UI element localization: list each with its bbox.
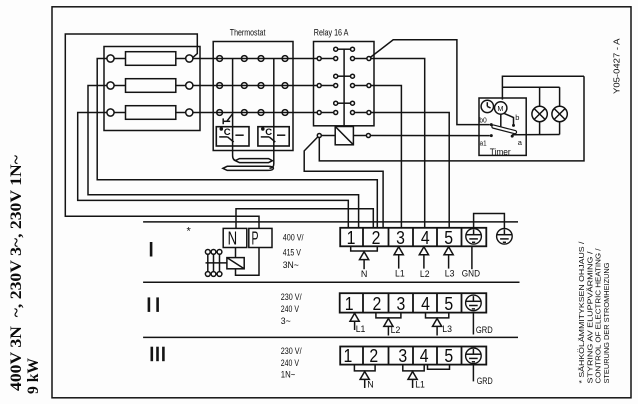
wire: relay row1 to timer contact b0	[371, 40, 490, 125]
arrow L1 strip III	[408, 372, 417, 380]
svg-text:*: *	[187, 226, 192, 238]
pin connector 3x2	[205, 250, 210, 255]
svg-text:GRD: GRD	[476, 325, 493, 336]
relay bridge row 1	[334, 47, 338, 51]
wire: K2 coil to P terminal	[236, 248, 260, 276]
svg-text:N: N	[228, 228, 238, 249]
voltage text section II	[281, 292, 302, 327]
C labels in sensors	[224, 127, 272, 138]
svg-text:2: 2	[372, 228, 381, 248]
heater box	[104, 47, 200, 131]
svg-text:a: a	[518, 138, 523, 147]
svg-text:b0: b0	[479, 116, 487, 125]
svg-text:3: 3	[398, 346, 407, 366]
svg-text:5: 5	[444, 294, 453, 314]
bracket under terminals 1-2 strip III	[354, 365, 375, 371]
svg-text:1: 1	[345, 294, 354, 314]
earth screw strip II	[466, 295, 482, 311]
wire: motor to contact b	[504, 113, 514, 124]
svg-text:P: P	[252, 228, 259, 249]
svg-text:415 V: 415 V	[283, 248, 302, 259]
wire: element2 internal leads	[114, 85, 125, 87]
link clock-motor	[494, 106, 495, 108]
svg-text:Relay 16 A: Relay 16 A	[314, 28, 349, 39]
relay row2 link segments	[321, 85, 333, 87]
svg-text:STEURUNG DER STROMHEIZUNG: STEURUNG DER STROMHEIZUNG	[602, 262, 611, 383]
bracket under terminals 2-3 strip II	[376, 313, 401, 318]
resistor R3 (heating element 3)	[126, 106, 176, 120]
earth screw strip I	[466, 229, 482, 245]
svg-text:GRD: GRD	[477, 376, 493, 387]
svg-text:L3: L3	[445, 268, 455, 279]
roman numeral II	[148, 297, 151, 312]
wire: element3 left to terminal 1 of strip I	[78, 113, 349, 228]
svg-text:L1: L1	[356, 324, 366, 335]
voltage text section III	[281, 346, 302, 381]
thermostat box	[213, 42, 293, 151]
connector N terminal box	[223, 228, 247, 247]
GRD stub strip III	[472, 365, 474, 382]
svg-text:2: 2	[373, 294, 382, 314]
N P connector labels	[228, 228, 259, 249]
svg-text:3N~: 3N~	[283, 260, 300, 271]
lamp H2	[552, 106, 567, 121]
relay coil terminals	[317, 134, 321, 138]
arrow L2 strip I	[419, 247, 428, 255]
svg-text:C: C	[224, 127, 231, 138]
bracket under terminals 3-4 strip III	[403, 365, 424, 371]
relay contact circles row 3	[317, 111, 321, 115]
wire: element3 internal leads	[114, 112, 125, 114]
svg-text:240 V: 240 V	[281, 358, 300, 369]
svg-text:b: b	[515, 113, 519, 122]
arrow L1 strip II	[350, 313, 359, 321]
svg-text:L2: L2	[420, 269, 430, 280]
wire: lamp L2 stub top	[559, 87, 561, 106]
bracket N under terminals 1-2	[351, 246, 378, 251]
relay bridge row 3	[334, 101, 338, 105]
GRD stub strip II	[472, 313, 474, 335]
terminal numbers strip III	[344, 346, 454, 366]
svg-text:Timer: Timer	[490, 147, 511, 158]
timer wiper bar	[492, 125, 517, 134]
arrow L1 strip I	[394, 247, 403, 255]
wire: element1 internal leads	[114, 58, 125, 60]
wire: lamp/motor feed bus	[502, 76, 584, 99]
arrow N strip III	[360, 372, 369, 380]
svg-text:1: 1	[344, 346, 353, 366]
svg-text:C: C	[265, 127, 272, 138]
arrow L3 strip I	[444, 247, 453, 255]
wire: relay row1 right to terminal 4 (L2)	[371, 59, 425, 228]
svg-text:L3: L3	[442, 324, 452, 335]
load-shed relay coil K2	[235, 248, 237, 258]
wire: relay coil right to timer contact a1	[371, 135, 490, 137]
sensor probe 1	[235, 159, 272, 163]
svg-text:3: 3	[396, 228, 405, 248]
svg-text:9 kW: 9 kW	[25, 358, 42, 394]
timer contact b	[512, 124, 515, 127]
svg-text:230 V/: 230 V/	[281, 292, 302, 303]
wire: lamp top bus	[502, 86, 559, 88]
relay bridge row 2	[334, 74, 338, 78]
svg-text:1N~: 1N~	[281, 370, 296, 381]
section divider III	[143, 336, 518, 338]
wire: relay coil left to lamp return bus	[319, 76, 584, 161]
svg-text:N: N	[367, 380, 374, 391]
svg-text:Y05-0427 - A: Y05-0427 - A	[612, 38, 622, 94]
connector P terminal box	[249, 228, 272, 247]
wire: row3 heater right to thermostat and relay	[193, 112, 317, 114]
wire: relay row3 right to terminal 5 (L3)	[371, 113, 449, 228]
relay row3 link segments	[321, 112, 333, 114]
relay K1 box	[314, 42, 375, 126]
svg-text:4: 4	[421, 228, 430, 248]
wire: row1 heater right to thermostat and relay	[193, 58, 317, 60]
section divider I	[143, 221, 518, 223]
right rotated footnote block	[577, 240, 611, 383]
terminal numbers strip I	[347, 228, 454, 248]
relay coil box	[335, 127, 353, 145]
wire labels under strip II	[356, 324, 493, 336]
thermostat terminal circles row 3	[217, 110, 223, 116]
wire: outer loop from heater element 1 top-right, around left side, to P terminal	[65, 34, 259, 228]
timer contact a1	[490, 134, 493, 137]
wire: earth link bracket	[474, 214, 505, 229]
svg-text:3~: 3~	[281, 316, 291, 327]
section divider II	[143, 281, 519, 283]
terminal strip III	[340, 347, 486, 365]
earth screw strip III	[466, 348, 482, 364]
svg-text:L1: L1	[415, 380, 425, 391]
resistor R1 (heating element 1)	[126, 52, 176, 66]
wire labels under strip III	[367, 376, 492, 391]
wire: lamp L1 stub top	[539, 87, 541, 106]
svg-text:400 V/: 400 V/	[283, 233, 304, 244]
timer clock symbol	[481, 100, 493, 112]
earth screw external	[497, 229, 513, 245]
terminal numbers strip II	[345, 294, 453, 314]
svg-text:4: 4	[420, 346, 429, 366]
voltage text section I	[283, 233, 304, 271]
bracket link terminals 4-5 strip III	[428, 365, 450, 370]
svg-text:5: 5	[444, 228, 453, 248]
svg-text:1: 1	[347, 228, 356, 248]
thermostat terminal circles row 1	[217, 56, 223, 62]
wire: element2 left to terminal 1 of strip I	[88, 86, 359, 228]
svg-text:2: 2	[369, 346, 378, 366]
thermal cutout trip symbol	[227, 114, 233, 122]
relay contact circles row 2	[317, 84, 321, 88]
wire: motor to wiper link	[500, 114, 502, 130]
svg-text:GND: GND	[462, 268, 480, 279]
GND stub strip I	[471, 246, 473, 269]
wire: element1 left to terminal 2 of strip I	[97, 59, 377, 228]
terminal circles of heating elements	[107, 55, 114, 62]
wire: N connector feed to terminal 2	[236, 209, 373, 228]
relay contact circles row 1	[317, 57, 321, 61]
svg-text:240 V: 240 V	[281, 304, 300, 315]
lamp H1	[532, 106, 547, 121]
bracket under terminals 4-5 strip II	[426, 313, 449, 318]
timer contact a	[511, 135, 514, 138]
arrow N strip I	[360, 252, 369, 260]
svg-text:3: 3	[397, 294, 406, 314]
roman numeral I	[150, 242, 153, 257]
wire: thermostat sensor drop 1	[233, 59, 238, 161]
relay row1 link segments	[321, 58, 333, 60]
wire: row2 heater right to thermostat and relay	[193, 85, 317, 87]
sensor switch box 1	[216, 127, 249, 146]
svg-text:L1: L1	[395, 268, 405, 279]
sensor switch box 2	[258, 127, 289, 146]
svg-text:230 V/: 230 V/	[281, 346, 302, 357]
svg-text:400V 3N ~, 230V 3~, 230V 1N~: 400V 3N ~, 230V 3~, 230V 1N~	[8, 154, 25, 391]
svg-text:5: 5	[444, 346, 453, 366]
timer motor M	[495, 102, 507, 114]
wire labels under strip I	[361, 268, 480, 279]
wire: pin connector to K2 coil	[206, 262, 227, 264]
timer box	[479, 98, 526, 155]
arrow L3 strip II	[433, 319, 442, 327]
svg-text:a1: a1	[480, 139, 487, 148]
svg-text:L2: L2	[391, 325, 401, 336]
wire: relay coil left to terminal 2 of strip I	[304, 137, 383, 228]
thermostat terminal circles row 2	[217, 83, 223, 89]
svg-text:Thermostat: Thermostat	[230, 28, 266, 39]
wire: thermostat sensor drop 2	[270, 59, 274, 169]
svg-text:M: M	[497, 104, 503, 113]
arrow L2 strip II	[384, 319, 393, 327]
relay actuator bar	[343, 49, 345, 126]
resistor R2 (heating element 2)	[126, 79, 176, 93]
roman numeral III	[151, 347, 154, 362]
wire: lamp bottom stubs and return to contact a	[539, 122, 541, 135]
timer contact b0	[490, 123, 493, 126]
terminal strip I	[340, 228, 486, 247]
sensor probe 2	[223, 166, 274, 170]
terminal strip II	[340, 293, 487, 312]
wire: relay row2 right to terminal 3 (L1)	[371, 86, 401, 228]
svg-text:4: 4	[421, 294, 430, 314]
svg-text:N: N	[361, 269, 368, 280]
